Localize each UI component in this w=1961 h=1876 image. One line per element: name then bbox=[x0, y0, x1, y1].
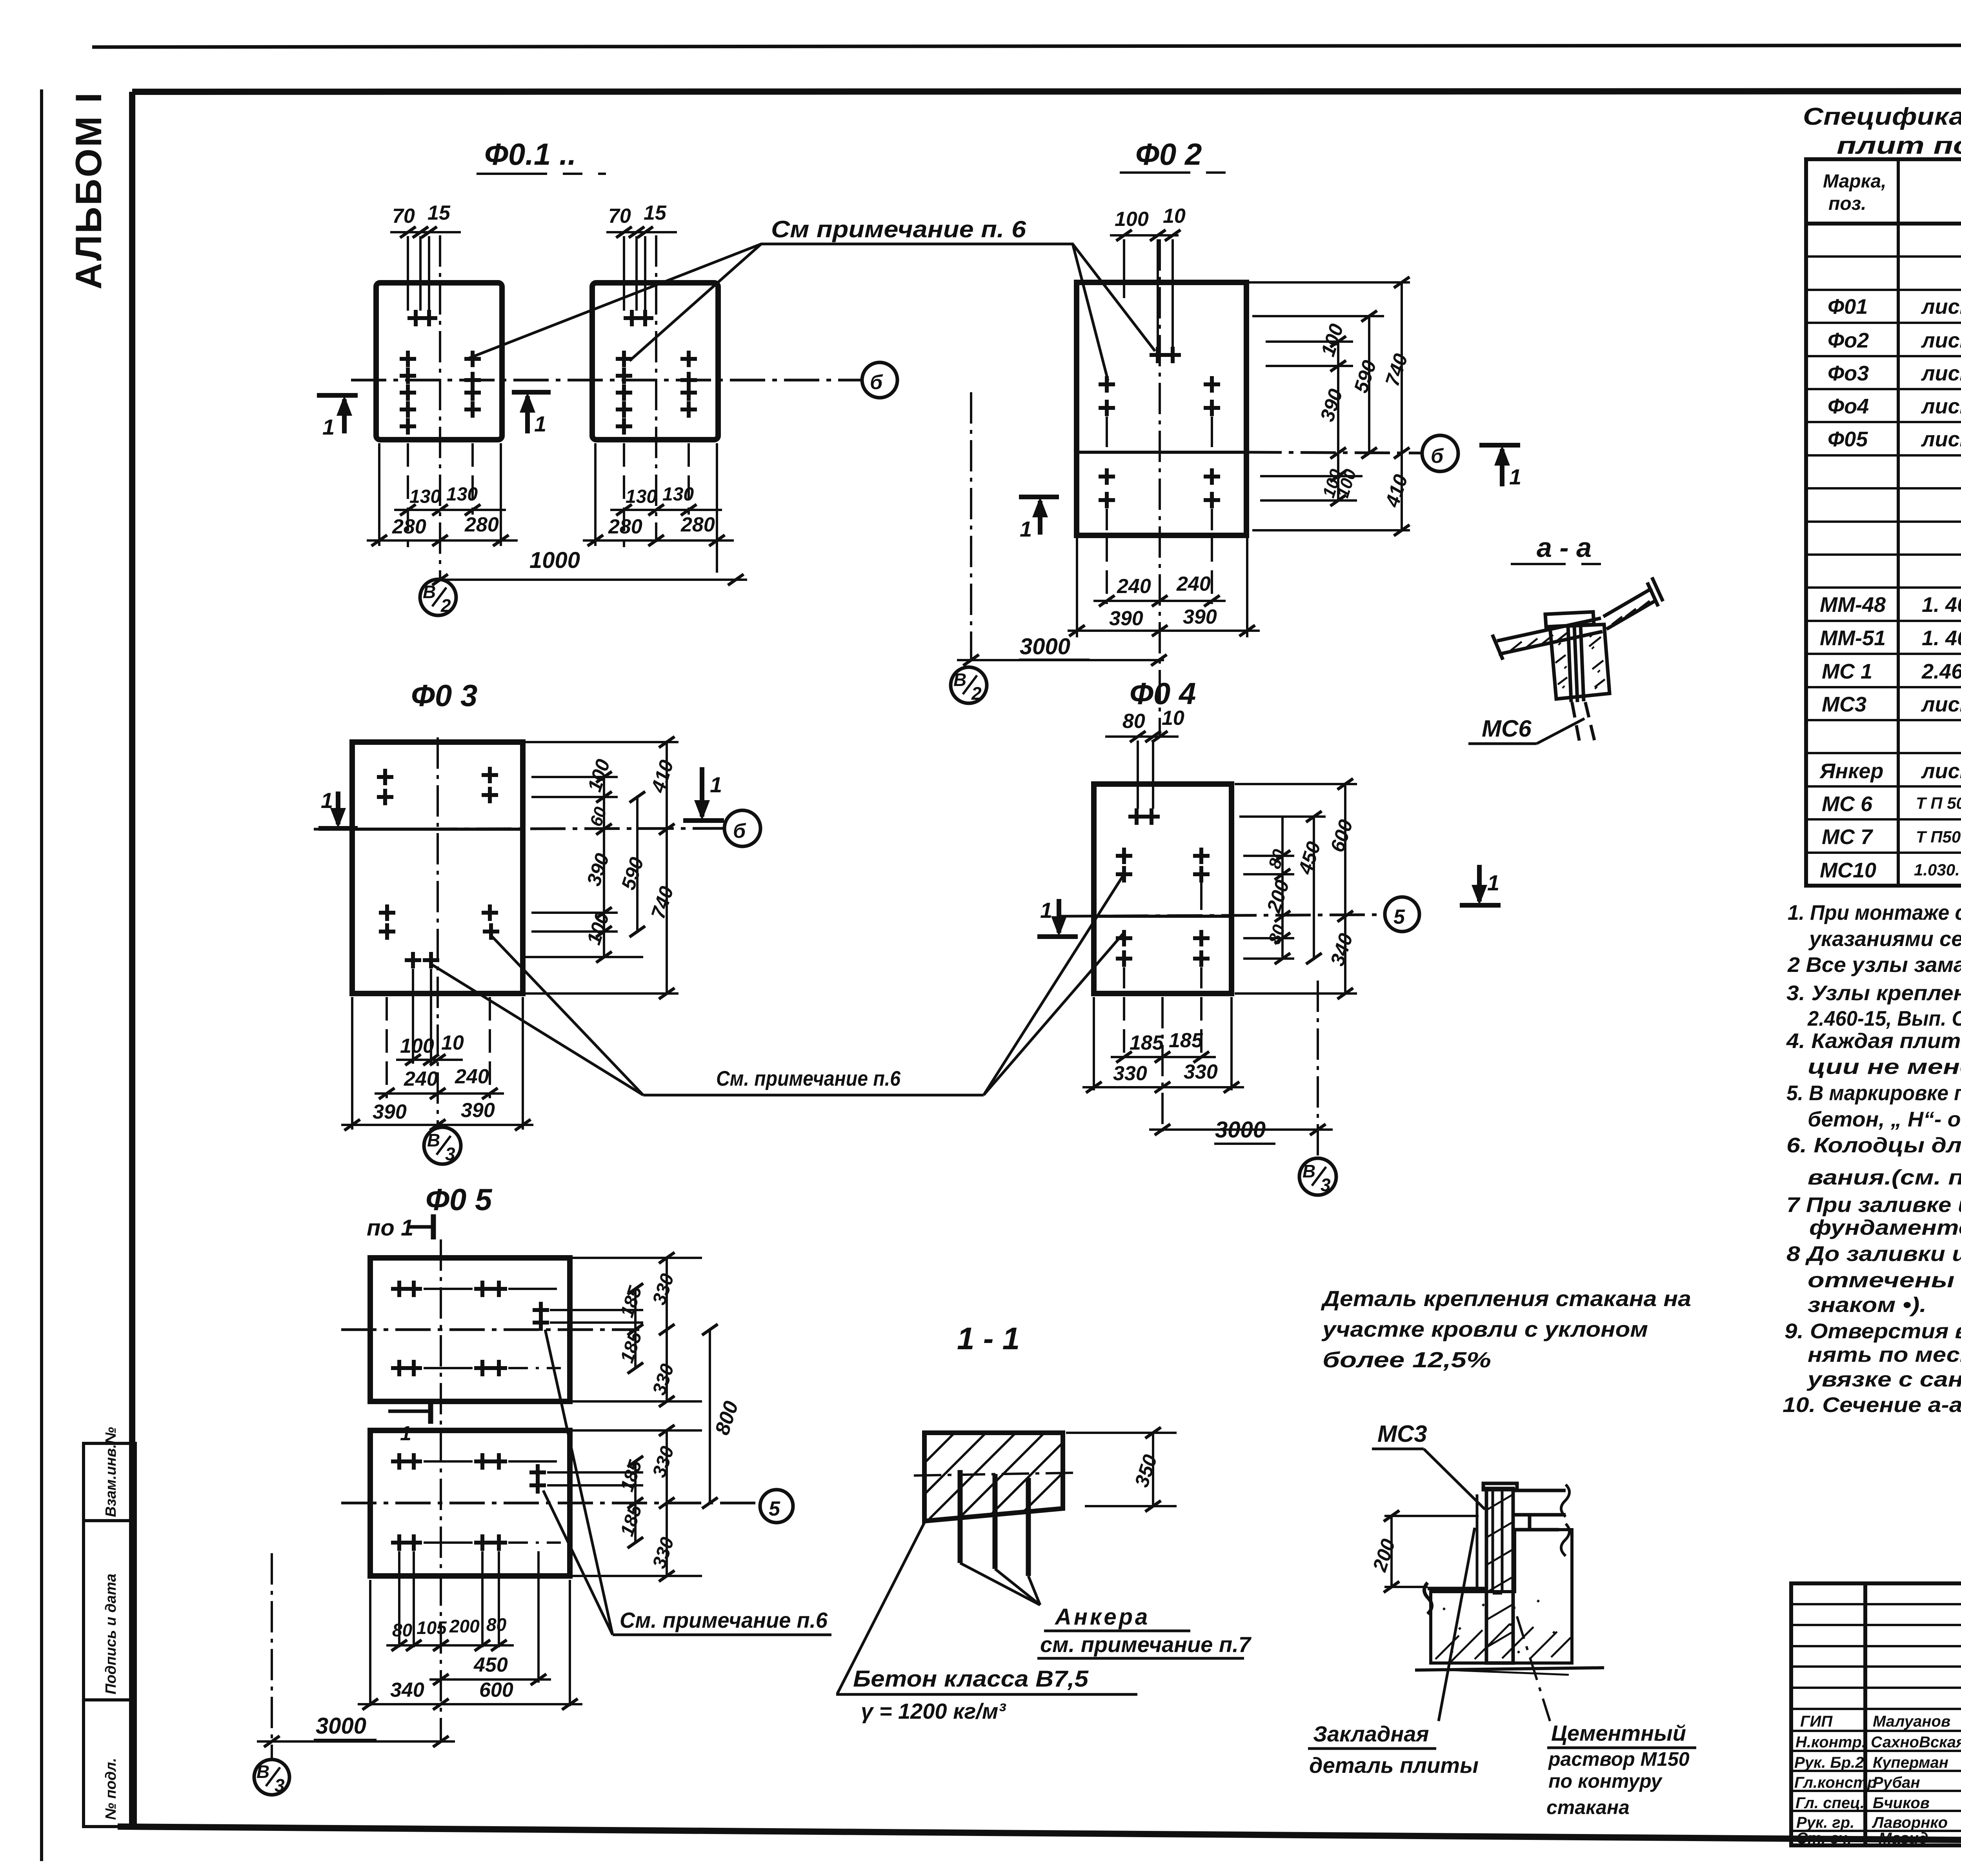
svg-text:100: 100 bbox=[1115, 208, 1149, 231]
text См. примечание п.6 (middle) bbox=[716, 1067, 901, 1090]
svg-text:Цементный: Цементный bbox=[1551, 1721, 1686, 1745]
svg-text:200: 200 bbox=[449, 1616, 480, 1636]
Ф04 internal joint line bbox=[1094, 915, 1232, 918]
grid circle В/3 under Ф03 bbox=[424, 1127, 461, 1164]
svg-text:См. примечание п.6: См. примечание п.6 bbox=[620, 1608, 828, 1632]
svg-text:5. В маркировке плит буква: 5. В маркировке плит буква „ Л“означает … bbox=[1786, 1081, 1961, 1105]
svg-text:№ подл.: № подл. bbox=[103, 1758, 119, 1820]
leader Закладная деталь плиты bbox=[1439, 1528, 1475, 1721]
Ф03 section mark 1 left bbox=[318, 792, 358, 828]
svg-text:Фо4: Фо4 bbox=[1828, 395, 1869, 418]
svg-text:600: 600 bbox=[479, 1679, 513, 1701]
svg-text:130: 130 bbox=[409, 486, 441, 507]
label по 1 with mark bbox=[367, 1214, 433, 1241]
svg-text:Ф05: Ф05 bbox=[1828, 428, 1868, 451]
Ф01 horizontal centre axis to circle Б bbox=[351, 379, 861, 382]
МС6 sketch anchor dashes below bbox=[1572, 702, 1595, 743]
svg-text:стакана: стакана bbox=[1546, 1796, 1630, 1818]
svg-text:100: 100 bbox=[400, 1035, 434, 1057]
Ф03 plate outline bbox=[352, 742, 523, 993]
svg-text:по 1: по 1 bbox=[367, 1215, 413, 1241]
Ф03 horizontal centre axis to circle Б bbox=[314, 828, 724, 829]
Ф04 inner cross stems bbox=[1124, 883, 1201, 988]
Ф05 B1 anchor crosses row1 bbox=[391, 1281, 549, 1376]
text См. примечание п.6 (Ф05) bbox=[620, 1608, 828, 1632]
svg-text:10: 10 bbox=[1162, 707, 1184, 730]
svg-text:Рук. гр.: Рук. гр. bbox=[1796, 1814, 1854, 1831]
Ф02 internal joint line bbox=[1077, 451, 1246, 454]
svg-text:по контуру: по контуру bbox=[1548, 1770, 1663, 1792]
text Цементный раствор М150 по контуру стакана bbox=[1546, 1721, 1696, 1818]
svg-text:ГИП: ГИП bbox=[1800, 1713, 1833, 1730]
svg-text:Куперман: Куперман bbox=[1873, 1754, 1948, 1771]
svg-text:390: 390 bbox=[1109, 607, 1143, 630]
svg-text:Бетон класса В7,5: Бетон класса В7,5 bbox=[853, 1666, 1089, 1692]
svg-text:1. 400-7: 1. 400-7 bbox=[1922, 626, 1961, 650]
Ф05 B2 centre axis to circle 5 bbox=[341, 1502, 759, 1505]
Ф03 bottom extension lines bbox=[352, 969, 523, 1130]
МС3 stakan wall bbox=[1483, 1483, 1517, 1663]
МС3 dim 200 bbox=[1384, 1516, 1479, 1587]
МС3 lower slab left bbox=[1424, 1583, 1486, 1614]
text Закладная деталь плиты bbox=[1308, 1721, 1479, 1778]
svg-text:раствор М150: раствор М150 bbox=[1548, 1748, 1690, 1770]
svg-text:Закладная: Закладная bbox=[1313, 1721, 1429, 1746]
Ф01 A2 dim 130 130 bbox=[610, 509, 722, 511]
svg-text:Магид: Магид bbox=[1879, 1830, 1928, 1847]
svg-text:390: 390 bbox=[1183, 606, 1217, 628]
МС3 roof slab right bbox=[1515, 1485, 1570, 1556]
Ф02 vertical centre axis bbox=[1159, 239, 1161, 737]
Ф05 B1 centre axis bbox=[341, 1328, 639, 1331]
svg-text:1: 1 bbox=[1020, 517, 1032, 541]
svg-text:Подпись и дата: Подпись и дата bbox=[103, 1574, 119, 1694]
grid circle Б for Ф02 bbox=[1422, 435, 1458, 471]
title block left table labels bbox=[1794, 1713, 1961, 1847]
svg-text:330: 330 bbox=[1113, 1062, 1147, 1085]
svg-text:В: В bbox=[256, 1761, 269, 1782]
МС3 embedded channel bbox=[1472, 1490, 1508, 1593]
Ф01 A1 dim 280 280 bbox=[367, 539, 518, 542]
svg-text:1: 1 bbox=[321, 788, 333, 813]
svg-text:280: 280 bbox=[680, 513, 715, 536]
svg-text:Анкера: Анкера bbox=[1054, 1604, 1150, 1630]
svg-text:б: б bbox=[733, 820, 746, 842]
svg-text:1: 1 bbox=[1509, 464, 1521, 489]
Ф05 B2 anchor crosses bbox=[391, 1453, 546, 1551]
svg-text:130: 130 bbox=[626, 486, 657, 507]
Ф01 A2 top dimension 70 15 bbox=[606, 232, 677, 311]
Ф01 section mark 1 right bbox=[512, 392, 551, 433]
table header labels bbox=[1823, 171, 1961, 214]
Ф02 anchor crosses bbox=[1099, 347, 1220, 508]
svg-text:2: 2 bbox=[440, 595, 451, 616]
Ф01 plate A1 outline bbox=[376, 283, 502, 440]
svg-text:1: 1 bbox=[710, 772, 722, 797]
axis В/2 vertical bbox=[970, 392, 972, 660]
Ф01 A1 bottom extension lines bbox=[379, 443, 501, 547]
svg-text:поз.: поз. bbox=[1828, 193, 1866, 214]
svg-text:340: 340 bbox=[390, 1679, 424, 1701]
Ф04 right dim chains bbox=[1282, 784, 1345, 993]
svg-text:Ф0 5: Ф0 5 bbox=[426, 1182, 493, 1217]
grid circle В/3 under Ф05 bbox=[254, 1760, 289, 1795]
svg-text:2.460-15, Вып. О. Верх стак: 2.460-15, Вып. О. Верх стакана должен бы… bbox=[1807, 1007, 1961, 1030]
Ф04 right dim labels bbox=[1262, 817, 1357, 969]
svg-text:70: 70 bbox=[392, 205, 415, 227]
svg-text:участке кровли с уклоном: участке кровли с уклоном bbox=[1321, 1317, 1648, 1341]
svg-text:185: 185 bbox=[1169, 1029, 1203, 1052]
Ф04 dim 185 185 bbox=[1111, 1056, 1216, 1058]
svg-text:б: б bbox=[1431, 445, 1444, 468]
svg-text:390: 390 bbox=[461, 1099, 495, 1122]
Ф01 A2 anchor crosses bbox=[616, 310, 697, 435]
leader см.примечание п.6 (top) bbox=[469, 244, 1155, 380]
leader Цементный раствор bbox=[1513, 1604, 1550, 1721]
svg-text:нять по месту с рассверлов: нять по месту с рассверловкой по контуру… bbox=[1808, 1343, 1961, 1367]
svg-text:3. Узлы крепления стаканов: 3. Узлы крепления стаканов к плитам см. … bbox=[1786, 981, 1961, 1005]
Ф02 section mark 1 bottom left bbox=[1019, 497, 1059, 535]
svg-text:МС 7: МС 7 bbox=[1822, 825, 1874, 849]
Ф03 vertical centre axis bbox=[437, 737, 439, 1130]
text См примечание п. 6 (top) bbox=[771, 216, 1026, 242]
svg-text:7 При заливке швов установи: 7 При заливке швов установить анкера Ф8А… bbox=[1786, 1193, 1961, 1217]
Ф05 dim 340 600 bbox=[358, 1703, 582, 1705]
Ф03 section mark 1 right top bbox=[683, 767, 724, 821]
Ф03 right dim chains bbox=[604, 742, 667, 993]
svg-text:8 До заливки швов заложить: 8 До заливки швов заложить детали мс6 (н… bbox=[1786, 1242, 1961, 1266]
svg-text:80: 80 bbox=[486, 1614, 507, 1635]
svg-text:МС3: МС3 bbox=[1822, 693, 1866, 716]
svg-text:70: 70 bbox=[608, 205, 631, 227]
label Ф05 bbox=[426, 1182, 493, 1217]
svg-text:130: 130 bbox=[446, 484, 478, 505]
Ф01 A1 anchor crosses bbox=[400, 310, 481, 435]
svg-text:10: 10 bbox=[1163, 205, 1186, 227]
svg-text:1.030. 9 -2 , Вып.7 ч. 2: 1.030. 9 -2 , Вып.7 ч. 2 bbox=[1914, 861, 1961, 879]
table rows text col1 col2 bbox=[1819, 295, 1961, 882]
svg-text:3: 3 bbox=[1321, 1175, 1331, 1195]
1-1 pad hatching bbox=[924, 1433, 1063, 1519]
svg-text:лист 20: лист 20 bbox=[1921, 395, 1961, 418]
1-1 dim 350 bbox=[1066, 1433, 1177, 1506]
svg-text:СахноВская: СахноВская bbox=[1871, 1734, 1961, 1751]
svg-text:Гл.констр: Гл.констр bbox=[1794, 1774, 1877, 1791]
svg-text:Ф01: Ф01 bbox=[1828, 295, 1868, 318]
table title bbox=[1803, 103, 1961, 159]
Ф01 A1 vertical axis bbox=[439, 235, 441, 580]
svg-text:лист 20: лист 20 bbox=[1921, 759, 1961, 783]
grid circle 5 for Ф05 bbox=[760, 1490, 793, 1523]
svg-text:Фо2: Фо2 bbox=[1828, 329, 1869, 352]
Ф04 horizontal centre axis to circle 5 bbox=[1059, 915, 1384, 916]
svg-text:Фо3: Фо3 bbox=[1828, 362, 1869, 385]
svg-text:Марка,: Марка, bbox=[1823, 171, 1886, 192]
svg-text:АЛЬБОМ I: АЛЬБОМ I bbox=[68, 91, 109, 289]
svg-text:Спецификация элементоб к схе: Спецификация элементоб к схеме расположе… bbox=[1803, 103, 1961, 130]
МС6 sketch right slab bbox=[1603, 577, 1663, 629]
svg-text:Ф0 3: Ф0 3 bbox=[411, 678, 477, 713]
svg-text:5: 5 bbox=[1393, 906, 1405, 928]
МС3 concrete mass bbox=[1431, 1530, 1572, 1663]
1-1 concrete pad outline bbox=[924, 1433, 1063, 1521]
svg-text:лист 20: лист 20 bbox=[1921, 428, 1961, 451]
svg-text:5: 5 bbox=[769, 1498, 780, 1520]
svg-text:МС6: МС6 bbox=[1482, 715, 1532, 742]
svg-text:бетон, „ Н“- оклеечная пар: бетон, „ Н“- оклеечная пароизоляция из р… bbox=[1808, 1108, 1961, 1131]
svg-text:МС 1: МС 1 bbox=[1822, 660, 1872, 683]
svg-text:Ф0 4: Ф0 4 bbox=[1130, 676, 1196, 711]
svg-text:Янкер: Янкер bbox=[1819, 759, 1883, 783]
Ф03 internal joint line bbox=[352, 828, 523, 831]
Ф05 right dim chains bbox=[635, 1258, 710, 1576]
1-1 pad centre dash line bbox=[914, 1473, 1073, 1476]
Ф04 section mark 1 left bbox=[1037, 899, 1078, 937]
svg-text:Т П 503-3-20.87 альбом IV: Т П 503-3-20.87 альбом IV bbox=[1916, 794, 1961, 812]
label a-a bbox=[1511, 532, 1616, 564]
Ф04 dim 3000 bbox=[1149, 1128, 1333, 1131]
svg-text:б: б bbox=[870, 371, 883, 394]
label АЛЬБОМ I (rotated) bbox=[68, 91, 109, 289]
Ф05 right dim labels bbox=[617, 1271, 743, 1571]
Ф01 A2 dim 280 280 bbox=[583, 539, 734, 542]
Ф02 right dim chains bbox=[1338, 282, 1402, 530]
Ф02 horizontal centre axis to circle Б bbox=[1246, 452, 1422, 453]
Ф05 dim 450 bbox=[429, 1678, 551, 1681]
svg-text:1 - 1: 1 - 1 bbox=[957, 1321, 1020, 1356]
leader branch to A2 bbox=[629, 244, 761, 361]
svg-text:280: 280 bbox=[464, 513, 499, 536]
svg-text:отмечены знаком х) и МС7: отмечены знаком х) и МС7 (на плане отмеч… bbox=[1808, 1268, 1961, 1292]
Ф05 bottom extension lines bbox=[370, 1551, 570, 1706]
Ф02 bottom extension lines bbox=[1077, 538, 1247, 637]
left margin strip labels bbox=[103, 1427, 119, 1820]
svg-text:ции не менее , чем в 3х у: ции не менее , чем в 3х углах. bbox=[1808, 1055, 1961, 1079]
Ф02 dim 240 240 bbox=[1093, 600, 1226, 602]
Ф05 B2 cross row stems bbox=[424, 1461, 561, 1543]
Ф04 plate outline bbox=[1094, 784, 1232, 993]
svg-text:1. 400-7: 1. 400-7 bbox=[1922, 593, 1961, 617]
svg-text:Малуанов: Малуанов bbox=[1873, 1713, 1950, 1730]
Ф05 dim 80 105 200 80 bbox=[386, 1644, 514, 1647]
svg-text:Рук. Бр.2: Рук. Бр.2 bbox=[1794, 1754, 1864, 1771]
label Ф0.1 bbox=[477, 137, 606, 174]
left margin strip box bbox=[84, 1443, 135, 1827]
grid circle Б for Ф03 bbox=[724, 810, 760, 846]
svg-text:3: 3 bbox=[445, 1144, 455, 1164]
svg-text:указаниями серии 2.460-2, вы: указаниями серии 2.460-2, вып.О и СНиП Ш… bbox=[1808, 927, 1961, 951]
label Ф04 bbox=[1130, 676, 1196, 711]
svg-text:В: В bbox=[953, 670, 966, 690]
svg-text:240: 240 bbox=[1176, 573, 1211, 595]
svg-text:а - а: а - а bbox=[1537, 532, 1592, 563]
svg-text:80: 80 bbox=[392, 1620, 413, 1640]
Ф04 bottom extension lines bbox=[1094, 997, 1232, 1132]
grid circle В/3 under Ф04 bbox=[1299, 1158, 1336, 1195]
section mark 1 between plates bbox=[388, 1399, 431, 1424]
МС6 sketch stakan body bbox=[1545, 612, 1610, 702]
label Ф02 bbox=[1120, 137, 1235, 173]
svg-text:ММ-48: ММ-48 bbox=[1820, 593, 1886, 617]
svg-text:В: В bbox=[427, 1130, 440, 1150]
svg-text:1. При монтаже сборных желез: 1. При монтаже сборных железобетонных пл… bbox=[1788, 901, 1961, 924]
Ф04 right extension lines bbox=[1235, 784, 1357, 993]
Ф03 dim 240 240 bbox=[375, 1092, 504, 1095]
svg-text:Деталь крепления стакана на: Деталь крепления стакана на bbox=[1321, 1286, 1691, 1311]
label 1-1 bbox=[957, 1321, 1020, 1356]
svg-text:ММ-51: ММ-51 bbox=[1820, 626, 1886, 650]
svg-text:лист 20: лист 20 bbox=[1921, 693, 1961, 716]
label Ф03 bbox=[411, 678, 477, 713]
svg-text:МС10: МС10 bbox=[1820, 859, 1876, 882]
text Бетон класса В7,5 bbox=[836, 1666, 1137, 1723]
svg-text:Ст. сч.: Ст. сч. bbox=[1796, 1830, 1852, 1847]
svg-text:240: 240 bbox=[404, 1068, 438, 1090]
svg-text:Бчиков: Бчиков bbox=[1873, 1794, 1930, 1812]
Ф05 right extension lines B1 bbox=[547, 1258, 702, 1576]
svg-text:1: 1 bbox=[1040, 898, 1052, 923]
Ф04 top dimension 80 10 bbox=[1105, 737, 1179, 809]
grid circle 5 for Ф04 bbox=[1385, 897, 1419, 932]
svg-text:См примечание п. 6: См примечание п. 6 bbox=[771, 216, 1026, 242]
svg-text:Т П503-3-20.87 альбом IV: Т П503-3-20.87 альбом IV bbox=[1916, 828, 1961, 846]
Ф02 dim 3000 bbox=[957, 659, 1164, 661]
Ф03 right dim labels bbox=[582, 757, 678, 948]
Ф05 vertical centre axis bbox=[440, 1239, 442, 1741]
Ф05 plate B1 outline bbox=[370, 1258, 570, 1401]
svg-text:деталь плиты: деталь плиты bbox=[1309, 1753, 1479, 1778]
svg-text:280: 280 bbox=[392, 515, 426, 538]
svg-text:МС 6: МС 6 bbox=[1822, 792, 1873, 816]
leader см. примечание п.6 (middle) bbox=[431, 877, 1123, 1095]
Ф01 section mark 1 left bbox=[317, 395, 358, 433]
Ф02 top dimension 100 10 bbox=[1110, 235, 1179, 347]
Ф01 dim 1000 bbox=[440, 579, 747, 581]
Ф04 anchor crosses bbox=[1116, 808, 1210, 967]
svg-text:2.460-15 , вып. О: 2.460-15 , вып. О bbox=[1921, 660, 1961, 683]
svg-text:10: 10 bbox=[441, 1032, 464, 1054]
label МС6 with leader bbox=[1468, 715, 1584, 744]
svg-text:плит покрытия для t= -30°: плит покрытия для t= -30°C , t= - 40°C bbox=[1837, 132, 1961, 159]
svg-text:1: 1 bbox=[322, 415, 335, 439]
svg-text:См. примечание п.6: См. примечание п.6 bbox=[716, 1067, 901, 1090]
svg-text:Гл. спец.: Гл. спец. bbox=[1795, 1794, 1865, 1812]
table grid bbox=[1806, 159, 1961, 886]
svg-text:3000: 3000 bbox=[316, 1713, 366, 1739]
svg-text:2 Все узлы замаркированы по: 2 Все узлы замаркированы по серии 2 460-… bbox=[1787, 953, 1961, 977]
Ф05 dim 3000 bbox=[257, 1740, 455, 1743]
grid circle Б for Ф01 bbox=[862, 362, 897, 398]
Ф01 A2 vertical axis bbox=[655, 235, 657, 542]
svg-text:В: В bbox=[423, 582, 436, 602]
svg-text:знаком •).: знаком •). bbox=[1808, 1293, 1926, 1317]
svg-text:лист 20: лист 20 bbox=[1921, 295, 1961, 318]
Ф05 plate B2 outline bbox=[370, 1430, 570, 1576]
svg-text:105: 105 bbox=[417, 1618, 447, 1638]
svg-text:см. примечание п.7: см. примечание п.7 bbox=[1040, 1632, 1252, 1657]
Ф03 anchor crosses bbox=[377, 767, 499, 968]
svg-text:130: 130 bbox=[662, 484, 694, 505]
svg-text:240: 240 bbox=[1117, 575, 1151, 598]
Ф04 dim 330 330 bbox=[1082, 1086, 1244, 1088]
Ф01 A1 top dimension 70 15 bbox=[390, 232, 461, 311]
svg-text:1: 1 bbox=[1487, 870, 1499, 895]
svg-text:Взам.инв.№: Взам.инв.№ bbox=[103, 1427, 119, 1517]
svg-text:3: 3 bbox=[275, 1775, 285, 1796]
svg-text:80: 80 bbox=[1122, 710, 1145, 733]
svg-text:4. Каждая плита должна быть: 4. Каждая плита должна быть приварена к … bbox=[1786, 1029, 1961, 1053]
svg-text:МС3: МС3 bbox=[1377, 1421, 1427, 1447]
Ф02 right dim labels bbox=[1316, 321, 1412, 510]
svg-text:185: 185 bbox=[1130, 1032, 1164, 1054]
svg-text:1: 1 bbox=[534, 411, 546, 436]
svg-text:10. Сечение а-а замаркирован: 10. Сечение а-а замаркировано на. листах… bbox=[1783, 1393, 1961, 1417]
Ф02 section mark 1 right bbox=[1479, 445, 1520, 486]
svg-text:2: 2 bbox=[971, 683, 982, 704]
svg-text:1000: 1000 bbox=[529, 548, 580, 573]
svg-text:15: 15 bbox=[644, 202, 667, 224]
МС3 ground line bbox=[1415, 1668, 1604, 1675]
svg-text:Н.контр.: Н.контр. bbox=[1795, 1734, 1866, 1751]
svg-text:В: В bbox=[1302, 1161, 1315, 1181]
Ф02 plate outline bbox=[1077, 282, 1246, 535]
svg-text:3000: 3000 bbox=[1020, 634, 1070, 659]
grid circle В/2 under Ф01 bbox=[420, 579, 456, 615]
svg-text:Ф0.1 ..: Ф0.1 .. bbox=[484, 137, 576, 171]
Ф02 dim 390 390 bbox=[1068, 630, 1260, 632]
Ф03 dim 390 390 bbox=[341, 1124, 533, 1126]
svg-text:увязке с сантехнической ч: увязке с сантехнической частью проекта. bbox=[1806, 1368, 1961, 1391]
svg-text:280: 280 bbox=[608, 515, 642, 538]
leader Бетон bbox=[837, 1520, 926, 1694]
svg-text:3000: 3000 bbox=[1215, 1117, 1266, 1143]
leader Анкера bbox=[960, 1563, 1040, 1605]
Ф04 section mark 1 right bbox=[1460, 865, 1501, 905]
title block left table bbox=[1791, 1583, 1961, 1845]
axis В/3 vertical at Ф04 bbox=[1317, 981, 1319, 1158]
svg-text:9. Отверстия в плитах покрыт: 9. Отверстия в плитах покрытия размером … bbox=[1785, 1319, 1961, 1343]
svg-text:более 12,5%: более 12,5% bbox=[1322, 1347, 1491, 1372]
svg-text:фундаментов под оборудование: фундаментов под оборудование. bbox=[1809, 1216, 1961, 1239]
svg-text:390: 390 bbox=[373, 1101, 407, 1123]
label МС3 with leader bbox=[1372, 1421, 1485, 1509]
svg-text:Рубан: Рубан bbox=[1873, 1774, 1920, 1791]
Ф01 A2 bottom extension lines bbox=[595, 443, 717, 573]
svg-text:15: 15 bbox=[427, 202, 451, 224]
svg-text:лист 20: лист 20 bbox=[1921, 329, 1961, 352]
МС6 sketch left slab bbox=[1492, 618, 1603, 660]
svg-text:6. Колодцы для анкеров све: 6. Колодцы для анкеров сверлить при монт… bbox=[1786, 1134, 1961, 1157]
sheet outer top border bbox=[92, 45, 1961, 47]
svg-text:Ф0 2: Ф0 2 bbox=[1135, 137, 1202, 171]
leader см. примечание п.6 (Ф05) bbox=[543, 1330, 831, 1635]
Ф01 plate A2 outline bbox=[592, 283, 718, 440]
Ф05 B1 cross row stems bbox=[424, 1289, 561, 1368]
svg-text:450: 450 bbox=[473, 1654, 508, 1676]
text Анкера см. примечание п.7 bbox=[1037, 1604, 1252, 1658]
Ф02 right extension lines bbox=[1249, 282, 1410, 530]
Ф03 dim 100 10 bbox=[396, 1059, 463, 1061]
svg-text:лист 20: лист 20 bbox=[1921, 362, 1961, 385]
Ф01 A1 dim 130 130 bbox=[394, 509, 506, 511]
svg-text:вания.(см. примечания п. 3: вания.(см. примечания п. 3 на листе 25) bbox=[1808, 1166, 1961, 1189]
axis В/3 vertical at Ф05 bbox=[271, 1553, 273, 1758]
Ф02 inner cross stems bbox=[1107, 417, 1212, 530]
1-1 anchor bars bbox=[960, 1470, 1028, 1576]
svg-text:240: 240 bbox=[455, 1065, 489, 1088]
text Деталь крепления стакана на участке кровли с уклоном более 12,5% bbox=[1321, 1286, 1691, 1372]
svg-text:1: 1 bbox=[400, 1422, 411, 1445]
